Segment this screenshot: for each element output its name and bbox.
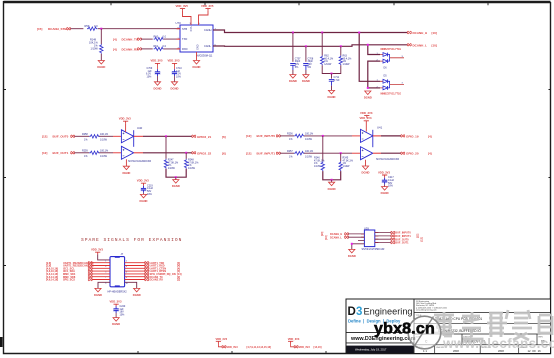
net I2C1_SDA connector xyxy=(46,270,92,274)
wire VDD_3V5 to U70 VCC pin 3 xyxy=(183,11,192,25)
svg-text:6: 6 xyxy=(126,272,127,274)
svg-text:VDD_3V3: VDD_3V3 xyxy=(378,170,390,174)
wire U40B V- to ground xyxy=(125,159,127,166)
net DCANH_L input connector xyxy=(325,235,349,239)
svg-text:STB: STB xyxy=(182,27,187,31)
wire junction to R148 xyxy=(100,29,102,44)
net GPIO_20 off-page connector xyxy=(401,152,432,156)
wire VDD_3V3 to U40A V+ xyxy=(125,123,127,132)
ground DGND below C711 xyxy=(328,90,336,99)
wire BUF_INPUT1 to R257 xyxy=(280,152,294,154)
SECTION: watermarks xyxy=(374,310,554,351)
svg-text:[12]: [12] xyxy=(417,234,420,238)
resistor R60 series 0 ohm xyxy=(154,35,167,40)
svg-text:DCANH_L: DCANH_L xyxy=(413,43,428,47)
SECTION: CAN transceiver top xyxy=(37,4,437,118)
ground DGND below R148 xyxy=(97,61,105,70)
svg-text:DCAN2_RX: DCAN2_RX xyxy=(150,279,164,282)
SECTION: title block xyxy=(346,299,551,354)
tagline Define Design Deploy xyxy=(348,318,401,323)
power VDD_3V3 above U40A xyxy=(119,117,131,124)
svg-text:MMBZ27VCL7T1G: MMBZ27VCL7T1G xyxy=(381,93,402,96)
wire output GPIO2_22 xyxy=(134,152,192,154)
junction BUF_INPUT0 at R246 xyxy=(322,135,324,137)
date bar xyxy=(347,346,414,353)
ground DGND J7 left xyxy=(94,288,102,297)
svg-text:4: 4 xyxy=(126,266,127,268)
capacitor C711 on termination mid xyxy=(329,74,340,86)
ground DGND below C709 xyxy=(154,82,162,91)
wire J7 left pin row 4 xyxy=(92,270,111,272)
net DCAN2_RX connector xyxy=(145,278,180,282)
svg-text:[10]: [10] xyxy=(432,43,437,47)
wire C219 to ground xyxy=(143,193,145,195)
wire U39 left stub pin 3 xyxy=(358,240,364,242)
svg-text:1/10W: 1/10W xyxy=(343,165,351,168)
net DCANH_RX off-page connector xyxy=(113,47,141,51)
svg-text:VDD_3V3: VDD_3V3 xyxy=(360,116,372,120)
svg-text:DCANH_H: DCANH_H xyxy=(413,31,428,35)
net DCANH_TX off-page connector xyxy=(113,38,141,42)
svg-text:VDD_3V3: VDD_3V3 xyxy=(299,346,311,349)
power VDD_3V3 header feed xyxy=(91,248,103,255)
resistor R245 47.0K pulldown xyxy=(339,153,354,171)
junction pulldown mid xyxy=(175,176,177,178)
wire U70 GND pin to ground xyxy=(196,52,198,60)
watermark ybx8.cn magnifier xyxy=(408,316,441,349)
junction BUF_INPUT1 at R245 xyxy=(340,152,342,154)
wire J7 left pin row 7 xyxy=(92,279,111,281)
svg-text:SN74LVC2G34DCKR: SN74LVC2G34DCKR xyxy=(376,158,399,161)
wire R257 to U41B input xyxy=(304,152,361,154)
svg-text:[14,16]: [14,16] xyxy=(314,346,322,349)
svg-text:VDD_3V5: VDD_3V5 xyxy=(201,4,214,8)
resistor R63 60.4 split termination xyxy=(339,46,352,66)
wire BUF_OUT0 to R258 xyxy=(74,135,89,137)
power VDD_3V3 decoupling C240 xyxy=(110,300,122,307)
wire J7 right pin row 3 xyxy=(125,267,146,269)
wire VDD_3V5 to U70 pin 5 xyxy=(199,11,209,25)
wire R61 to U70 pin 4 xyxy=(164,48,180,50)
power VDD_3V3 decoupling C710 xyxy=(168,59,180,70)
svg-text:U40: U40 xyxy=(137,126,143,130)
capacitor C707 39pF on CANH xyxy=(290,33,301,71)
svg-text:1/10W: 1/10W xyxy=(188,167,196,170)
wire J7 right pin row 7 xyxy=(125,279,146,281)
ground DGND J7 right xyxy=(133,288,141,297)
resistor R248 47.0K pulldown xyxy=(185,153,200,170)
svg-text:R259: R259 xyxy=(82,150,88,153)
op IC U70 CAN transceiver HVD230M-Q1 xyxy=(176,21,220,58)
net UART1_RS232DCAN2_RX connector xyxy=(46,264,94,268)
wire J7 left pin row 1 xyxy=(92,262,111,264)
wire D6 pin 2 to ground bus xyxy=(368,61,380,88)
wire J7 pin 9 to ground xyxy=(98,282,110,288)
net UART1_RTSN connector xyxy=(145,270,180,274)
svg-text:0.0: 0.0 xyxy=(94,24,98,28)
website bar xyxy=(346,333,416,343)
svg-text:DCANH_STB: DCANH_STB xyxy=(48,27,67,31)
svg-text:[4,6,14,16]: [4,6,14,16] xyxy=(46,279,58,282)
svg-text:5: 5 xyxy=(105,272,106,274)
scale chk apvd sheet row xyxy=(416,345,542,354)
junction CANH at C707 xyxy=(292,32,294,34)
svg-text:VDD_3V5: VDD_3V5 xyxy=(151,59,163,63)
wire C709 to ground xyxy=(157,76,159,82)
svg-text:VDD_3V3: VDD_3V3 xyxy=(288,337,300,341)
ground DGND below C240 xyxy=(112,318,120,327)
ground DGND pulldowns xyxy=(172,180,180,189)
wire R256 to U41A input xyxy=(304,135,361,137)
ground DGND below U41B xyxy=(362,166,370,175)
TVS diode D5 MMBZ27VCL7T1G lower xyxy=(377,75,405,96)
net VDD_3V3 tie note A xyxy=(227,346,272,349)
junction pulldown mid right xyxy=(331,179,333,181)
svg-text:ybx8.cn: ybx8.cn xyxy=(374,321,435,338)
net BUF_INPUT1 output connector xyxy=(375,234,412,238)
resistor R148 10K pulldown xyxy=(89,39,103,54)
SECTION: expansion header xyxy=(46,237,182,326)
resistor R59 value 0 xyxy=(85,24,99,31)
power VDD_3V5 right feed xyxy=(201,4,214,11)
svg-text:HP-HEADER5X2: HP-HEADER5X2 xyxy=(108,290,128,293)
svg-text:GPIO2_21: GPIO2_21 xyxy=(197,135,212,139)
svg-text:www.elecfans.com: www.elecfans.com xyxy=(442,336,554,351)
svg-text:R257: R257 xyxy=(287,150,293,153)
wire mid to ground xyxy=(175,177,177,179)
op-amp U40A buffer xyxy=(121,126,142,143)
svg-text:RXD: RXD xyxy=(182,47,188,51)
op-amp U41B buffer xyxy=(361,130,400,161)
svg-text:1/10W: 1/10W xyxy=(168,167,176,170)
junction termination mid xyxy=(331,73,333,75)
net BUF_INPUT0 output connector xyxy=(375,231,412,235)
svg-text:VDD_3V5: VDD_3V5 xyxy=(176,4,189,8)
svg-text:VDD_3V3: VDD_3V3 xyxy=(216,337,228,341)
svg-text:SPARE SIGNALS FOR EXPANSION: SPARE SIGNALS FOR EXPANSION xyxy=(81,237,182,243)
svg-text:U70: U70 xyxy=(176,21,182,25)
logo D3 Engineering xyxy=(348,306,413,318)
wire net DCANH_H from U70 CANH xyxy=(213,30,407,33)
capacitor C710 1uF xyxy=(172,67,183,78)
svg-text:GPIO_19: GPIO_19 xyxy=(406,134,419,138)
net DCANH_STB off-page connector xyxy=(37,27,71,31)
svg-text:DCANH_L: DCANH_L xyxy=(330,236,342,239)
svg-text:BUF_INPUT1: BUF_INPUT1 xyxy=(257,151,276,155)
watermark www.elecfans.com xyxy=(442,336,554,351)
net GPIO2_21 off-page connector xyxy=(192,135,226,139)
net VDD_3V3 tie note B xyxy=(299,346,322,349)
junction CANL at C708 xyxy=(305,45,307,47)
wire R148 to ground xyxy=(100,54,102,61)
wire J7 right pin row 2 xyxy=(125,265,146,267)
svg-text:BUF_INPUT0: BUF_INPUT0 xyxy=(257,134,276,138)
resistor R257 100 series xyxy=(287,150,314,158)
svg-text:1/10W: 1/10W xyxy=(91,48,99,51)
wire output GPIO2_21 xyxy=(134,135,192,137)
svg-text:[4]: [4] xyxy=(113,47,117,51)
title block frame xyxy=(346,299,551,354)
TVS diode D6 MMBZ27VCL7T1G upper xyxy=(377,48,405,70)
wire D5 pin 2 to ground xyxy=(368,87,380,89)
op-amp U41A buffer xyxy=(361,126,383,143)
svg-text:SN74LVC2G34DCKR: SN74LVC2G34DCKR xyxy=(128,160,151,163)
junction CANL TVS tap xyxy=(367,44,369,46)
SECTION: bottom middle IC xyxy=(321,226,424,258)
svg-text:100,1%: 100,1% xyxy=(305,150,314,153)
junction CANH at R62 xyxy=(321,32,323,34)
svg-text:BUF_OUT1: BUF_OUT1 xyxy=(53,151,69,155)
SECTION: left op-amp buffers xyxy=(42,117,226,203)
svg-text:[10]: [10] xyxy=(432,31,437,35)
wire BUF_INPUT0 to R256 xyxy=(280,135,294,137)
svg-text:1/10W: 1/10W xyxy=(100,138,108,141)
svg-text:VCC: VCC xyxy=(189,27,192,32)
net BUF_OUT1 output connector xyxy=(375,241,409,245)
net GPIO2_22 off-page connector xyxy=(192,151,226,155)
power VDD_3V5 left feed xyxy=(176,4,189,11)
svg-text:100,1%: 100,1% xyxy=(100,150,109,153)
svg-text:1/10W: 1/10W xyxy=(324,63,332,66)
power VDD_3V3 decoupling C217 xyxy=(378,170,390,178)
svg-text:CANL: CANL xyxy=(204,44,211,48)
ground DGND below C708 xyxy=(302,75,310,84)
wire C707 to ground xyxy=(292,70,294,75)
svg-text:R258: R258 xyxy=(82,133,88,136)
svg-text:[12]: [12] xyxy=(42,151,47,155)
svg-text:DCANH_TX: DCANH_TX xyxy=(122,38,138,42)
net BUF_INPUT0 off-page connector xyxy=(246,134,280,138)
svg-text:VDD_3V3: VDD_3V3 xyxy=(360,111,373,115)
resistor R247 47.0K pulldown xyxy=(164,136,179,170)
junction GPIO2_22 at R248 xyxy=(185,152,187,154)
watermark elecfans chinese characters xyxy=(434,310,553,340)
svg-text:www.d3engineering.com: www.d3engineering.com xyxy=(416,309,437,312)
connector J7 HP-HEADER5X2 xyxy=(105,252,127,293)
net UART1_RXD connector xyxy=(145,264,180,268)
ground DGND below C710 xyxy=(171,82,179,91)
svg-text:DCANH_RX: DCANH_RX xyxy=(122,47,139,51)
wire output GPIO_19 xyxy=(373,135,401,137)
note SPARE SIGNALS FOR EXPANSION xyxy=(81,237,182,243)
svg-text:1/10W: 1/10W xyxy=(305,155,313,158)
title field row 2 xyxy=(414,329,551,334)
svg-text:Engineering: Engineering xyxy=(364,307,413,317)
wire R258 to U40A input xyxy=(99,135,121,137)
junction CANH TVS tap xyxy=(358,32,360,34)
svg-text:0.0: 0.0 xyxy=(163,45,167,48)
wire VDD_3V3 to J7 pin 1 xyxy=(98,254,110,260)
svg-text:U41: U41 xyxy=(377,126,383,130)
svg-text:[6]: [6] xyxy=(222,151,226,155)
power VDD_3V5 decoupling C709 xyxy=(151,59,163,70)
wire J7 left pin row 3 xyxy=(92,267,111,269)
svg-text:10: 10 xyxy=(126,283,128,285)
ground DGND below TVS xyxy=(364,91,372,100)
wire J7 left pin row 2 xyxy=(92,265,111,267)
net I2C1_SCL connector xyxy=(46,267,92,271)
svg-text:VDD_3V3: VDD_3V3 xyxy=(91,248,103,252)
net SPI1_CS0BPI_DQ_ON connector xyxy=(145,272,182,276)
wire output GPIO_20 xyxy=(373,152,401,154)
wire J7 right pin row 1 xyxy=(125,262,146,264)
net DCANH_L off-page connector xyxy=(407,43,436,47)
net MMC_SD8 connector xyxy=(46,275,92,279)
svg-text:[4,7,9,11,13,14,15,16]: [4,7,9,11,13,14,15,16] xyxy=(247,346,272,349)
svg-text:1/10W: 1/10W xyxy=(305,138,313,141)
svg-text:100,1%: 100,1% xyxy=(305,133,314,136)
net DCANH_H input connector xyxy=(321,232,349,236)
capacitor C240 1uF xyxy=(113,305,126,316)
svg-text:3: 3 xyxy=(105,266,106,268)
svg-text:VDD_3V3: VDD_3V3 xyxy=(227,346,239,349)
net BUF_OUT0 off-page connector xyxy=(42,134,75,138)
wire net DCANH_L from U70 CANL xyxy=(213,45,407,47)
svg-text:1: 1 xyxy=(105,260,106,262)
wire R259 to U40B input xyxy=(99,152,121,154)
svg-text:7: 7 xyxy=(105,277,106,279)
svg-text:VDD_3V3: VDD_3V3 xyxy=(110,300,122,304)
SECTION: right op-amp buffers xyxy=(246,116,432,195)
svg-text:BUF_OUT1: BUF_OUT1 xyxy=(395,242,409,245)
net UART1_RS232DCAN2_TX connector xyxy=(46,261,94,265)
svg-text:BUF_OUT0: BUF_OUT0 xyxy=(53,134,69,138)
wire J7 right pin row 4 xyxy=(125,270,146,272)
wire J7 right pin row 6 xyxy=(125,276,146,278)
resistor R246 47.0K pulldown xyxy=(314,136,325,171)
svg-text:[10]: [10] xyxy=(321,232,324,236)
net DCAN2_TX connector xyxy=(145,275,180,279)
wire C708 to ground xyxy=(305,70,307,75)
ground DGND pulldowns right xyxy=(328,182,336,191)
svg-text:100,1%: 100,1% xyxy=(100,133,109,136)
svg-text:4.7nF: 4.7nF xyxy=(334,79,341,82)
company address block xyxy=(416,300,447,312)
wire pulldown commons xyxy=(166,169,186,178)
net SPI2_SCS connector xyxy=(46,278,92,282)
svg-text:[12]: [12] xyxy=(42,134,47,138)
junction node STB xyxy=(100,28,102,30)
wire DCANH_RX to R61 xyxy=(141,48,153,50)
net BUF_INPUT1 off-page connector xyxy=(246,151,280,155)
resistor R256 100 series xyxy=(287,133,314,141)
size dwg rev row xyxy=(414,334,551,345)
svg-text:9: 9 xyxy=(105,283,106,285)
IC U39 level shifter xyxy=(361,226,385,251)
net MMC_SD4 connector xyxy=(46,272,92,276)
wire termination midpoint xyxy=(322,65,341,73)
net DCANH_H off-page connector xyxy=(407,31,436,35)
svg-text:3: 3 xyxy=(356,306,362,318)
ground DGND below C217 xyxy=(381,187,389,196)
power VDD_3V3 stub B xyxy=(288,337,300,348)
svg-text:MMBZ27VCL7T1G: MMBZ27VCL7T1G xyxy=(381,48,402,51)
capacitor C219 0.1uF xyxy=(141,184,154,195)
svg-text:[4]: [4] xyxy=(428,134,432,138)
wire J7 pin 10 to ground xyxy=(125,282,137,288)
wire DCANH_H to U39 xyxy=(348,233,364,235)
svg-text:VDD_3V3: VDD_3V3 xyxy=(119,117,131,121)
ground DGND below C219 xyxy=(140,194,148,203)
wire J7 left pin row 6 xyxy=(92,276,111,278)
watermark ybx8.cn text xyxy=(374,321,435,338)
power VDD_3V3 floating stub xyxy=(360,111,373,118)
resistor R258 100 series xyxy=(82,133,109,141)
wire DCANH_STB to R59 xyxy=(70,28,83,30)
svg-text:SN74LVC2T45DCUR: SN74LVC2T45DCUR xyxy=(362,248,385,251)
junction CANL at R63 xyxy=(340,45,342,47)
svg-text:1/10W: 1/10W xyxy=(100,155,108,158)
SECTION: bottom power stubs xyxy=(216,337,322,349)
svg-text:[12]: [12] xyxy=(246,134,251,138)
wire CANL drop to TVS D6 pin 1 xyxy=(368,45,380,55)
op-amp U40B buffer xyxy=(121,130,151,163)
svg-text:[12]: [12] xyxy=(246,151,251,155)
svg-text:[4]: [4] xyxy=(113,38,117,42)
svg-text:[6]: [6] xyxy=(222,135,226,139)
ground DGND below U70 xyxy=(193,61,201,70)
svg-text:CANH: CANH xyxy=(204,28,211,32)
wire C217 to ground xyxy=(384,184,386,186)
resistor R62 60.4 split termination xyxy=(321,33,334,66)
power VDD_3V3 above U41A xyxy=(360,116,372,123)
net UART1_CTSN connector xyxy=(145,267,180,271)
svg-text:SPI2_SCS: SPI2_SCS xyxy=(63,279,75,282)
svg-text:GPIO_20: GPIO_20 xyxy=(406,152,419,156)
wire J7 left pin row 5 xyxy=(92,273,111,275)
wire CANH drop to TVS D5 pin 1 xyxy=(359,33,380,82)
junction GPIO2_21 at R247 xyxy=(165,135,167,137)
capacitor C709 1uF xyxy=(146,67,161,78)
svg-text:TXD: TXD xyxy=(182,37,187,41)
wire R60 to U70 pin 1 xyxy=(164,38,180,40)
svg-text:0.0: 0.0 xyxy=(163,35,167,38)
wire pulldown commons right xyxy=(323,171,341,180)
svg-text:[2]: [2] xyxy=(177,279,180,282)
wire BUF_OUT1 to R259 xyxy=(74,152,89,154)
power VDD_3V3 stub A xyxy=(216,337,228,348)
svg-text:[15]: [15] xyxy=(37,27,42,31)
svg-text:VDD_3V3: VDD_3V3 xyxy=(168,59,180,63)
svg-text:[12]: [12] xyxy=(421,237,424,241)
svg-text:HVD230M-Q1: HVD230M-Q1 xyxy=(196,54,213,58)
junction U39 ground corner xyxy=(351,243,353,245)
wire C240 to ground xyxy=(115,313,117,318)
wire R59 to U70 pin 8 xyxy=(98,28,180,30)
svg-text:2: 2 xyxy=(126,260,127,262)
power VDD_3V3 decoupling C219 xyxy=(137,179,149,187)
junction TVS ground bus xyxy=(367,87,369,89)
resistor R61 series 0 ohm xyxy=(154,45,167,50)
resistor R259 100 series xyxy=(82,150,109,158)
net GPIO_19 off-page connector xyxy=(401,134,432,138)
svg-text:GPIO2_22: GPIO2_22 xyxy=(197,151,212,155)
svg-text:GND: GND xyxy=(196,45,199,51)
wire U41B V- to ground xyxy=(365,160,367,166)
wire VDD_3V3 to U41A V+ xyxy=(365,123,367,132)
net BUF_OUT0 output connector xyxy=(375,238,409,242)
svg-text:[10]: [10] xyxy=(325,235,328,239)
wire U39 GND to ground xyxy=(352,244,365,250)
svg-text:1/10W: 1/10W xyxy=(343,63,351,66)
capacitor C217 0.1uF xyxy=(382,176,395,187)
wire mid to ground right xyxy=(331,180,333,182)
wire J7 right pin row 5 xyxy=(125,273,146,275)
svg-text:D: D xyxy=(348,306,356,318)
net UART1_TXD connector xyxy=(145,261,180,265)
svg-text:R256: R256 xyxy=(287,133,293,136)
wire C710 to ground xyxy=(174,76,176,82)
